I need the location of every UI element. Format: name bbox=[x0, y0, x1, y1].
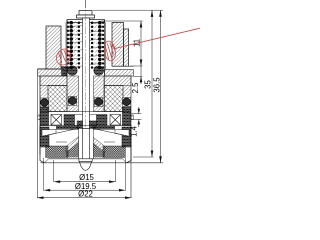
svg-text:Ø22: Ø22 bbox=[78, 189, 93, 198]
packing crossed box right bbox=[110, 115, 121, 126]
extension 1.4 top bbox=[131, 113, 142, 115]
body right outer edge and extension bbox=[130, 76, 132, 198]
stem side packing right bbox=[90, 121, 97, 129]
dim extension dia15 right bbox=[115, 160, 117, 182]
poppet head bbox=[79, 159, 92, 162]
spring seat left bbox=[67, 66, 77, 75]
seal stack outer right bbox=[122, 107, 130, 126]
seat cone line left bbox=[42, 128, 79, 136]
upper right wall inner tube bbox=[112, 23, 124, 67]
packing crossed box left bbox=[51, 115, 62, 126]
seal dark zone near stem right bbox=[92, 143, 105, 158]
cap flange bbox=[77, 15, 95, 18]
svg-text:1.4: 1.4 bbox=[130, 125, 139, 137]
gap seal left bbox=[62, 67, 68, 76]
body upper band left bbox=[40, 76, 67, 86]
cap bbox=[79, 11, 92, 16]
svg-text:36.5: 36.5 bbox=[152, 77, 161, 93]
white wedge left bbox=[42, 130, 56, 137]
seal band top line left bbox=[56, 141, 67, 143]
dim line dia15 bbox=[54, 181, 116, 183]
spring coil wire sections bbox=[67, 21, 105, 70]
chamfer left bbox=[45, 159, 49, 163]
guide packing left bbox=[64, 115, 75, 127]
flange seal column right bbox=[122, 127, 131, 147]
body block right crosshatch bbox=[104, 86, 123, 112]
O-ring groove outer right bbox=[122, 98, 130, 107]
bushing left bbox=[75, 115, 83, 126]
inner hatch left of stem bbox=[67, 76, 79, 112]
dim extension dia19.5 left bbox=[43, 158, 45, 191]
red mark ellipse right bbox=[103, 40, 117, 62]
dim line 36.5 bbox=[160, 10, 162, 163]
dim line 11 bbox=[140, 21, 142, 66]
stem lower part bbox=[83, 129, 90, 159]
dim line 35 bbox=[151, 10, 153, 157]
spring helix lines bbox=[71, 23, 100, 68]
dim 2.5 tail bbox=[140, 66, 142, 84]
spring cup left wall bbox=[66, 20, 68, 76]
right step edge bbox=[129, 65, 134, 67]
rib left bbox=[38, 115, 40, 120]
body block left crosshatch bbox=[48, 86, 67, 112]
flange outline bbox=[40, 126, 131, 163]
dim line dia22 bbox=[37, 197, 132, 199]
inner hatch right of stem bbox=[94, 76, 105, 112]
extension 35 bottom bbox=[133, 156, 154, 158]
white wedge right bbox=[115, 130, 129, 137]
chamfer right bbox=[123, 159, 127, 163]
O-ring groove inner left bbox=[68, 97, 76, 106]
left shoulder band bbox=[38, 69, 67, 76]
spring cup right wall bbox=[104, 20, 106, 76]
extension 36.5 bottom and flange rim bbox=[41, 162, 164, 164]
bushing right bbox=[90, 115, 97, 126]
dim extension dia15 left bbox=[53, 160, 55, 182]
O-ring inner left bbox=[69, 97, 77, 105]
spring retainer plate bbox=[67, 20, 105, 23]
arrow 1.4 bottom bbox=[138, 119, 140, 127]
stem bbox=[83, 18, 90, 159]
seat wedge hatched right bbox=[92, 137, 105, 153]
svg-text:35: 35 bbox=[144, 80, 153, 89]
centerline bbox=[85, 0, 87, 171]
svg-text:2.5: 2.5 bbox=[131, 82, 140, 94]
right shoulder band bbox=[105, 70, 134, 76]
extension 1.4 bottom bbox=[131, 118, 142, 120]
dim extension dia19.5 right bbox=[125, 158, 127, 191]
flange top line bbox=[40, 125, 131, 127]
spring seat right bbox=[94, 66, 104, 75]
left step edge and dia22 extension line bbox=[37, 69, 39, 198]
left step top edge bbox=[38, 68, 46, 70]
upper left housing block bbox=[46, 26, 61, 69]
rib right 1.4 bbox=[131, 115, 133, 120]
poppet tip cone bbox=[80, 161, 92, 170]
guide packing right bbox=[97, 115, 108, 127]
packing texture above wedge left bbox=[56, 126, 79, 130]
spring coil texture segments bbox=[73, 22, 98, 69]
extension line top for 35 and 36.5 bbox=[93, 9, 163, 11]
flange seal column left bbox=[40, 127, 49, 147]
extension 11 bottom bbox=[131, 65, 143, 67]
seat cone line right bbox=[92, 128, 129, 136]
stem side packing left bbox=[77, 121, 83, 129]
O-ring inner right bbox=[95, 98, 103, 106]
O-ring outer right bbox=[123, 98, 131, 106]
seal stack outer left bbox=[40, 107, 48, 126]
O-ring groove inner right bbox=[94, 98, 102, 107]
upper right wall outer tube bbox=[124, 29, 129, 66]
O-ring groove outer left bbox=[40, 98, 48, 107]
dim line dia19.5 bbox=[44, 189, 126, 191]
seal band top line right bbox=[104, 141, 115, 143]
body outer hatch left bbox=[40, 86, 48, 97]
seal base band right bbox=[103, 146, 125, 158]
body outer hatch right bbox=[123, 86, 131, 97]
stem centerline bbox=[85, 0, 87, 171]
seal base band left bbox=[46, 146, 68, 158]
packing texture above wedge right bbox=[92, 126, 115, 130]
extension 2.5 bottom bbox=[134, 75, 143, 77]
stem channel bbox=[79, 129, 94, 159]
red mark ellipse left bbox=[54, 47, 73, 67]
body upper band right bbox=[104, 76, 131, 86]
flange bottom face right bbox=[92, 158, 122, 160]
body mid line bbox=[40, 111, 131, 113]
seat wedge hatched left bbox=[66, 137, 79, 153]
O-ring outer left bbox=[41, 99, 49, 107]
arrow 1.4 top bbox=[138, 107, 140, 114]
flange bottom face left bbox=[48, 158, 78, 160]
body left outer edge bbox=[39, 76, 41, 155]
seal dark zone near stem left bbox=[66, 143, 79, 158]
red leader line bbox=[115, 28, 200, 48]
extension line 11 top bbox=[101, 20, 143, 22]
